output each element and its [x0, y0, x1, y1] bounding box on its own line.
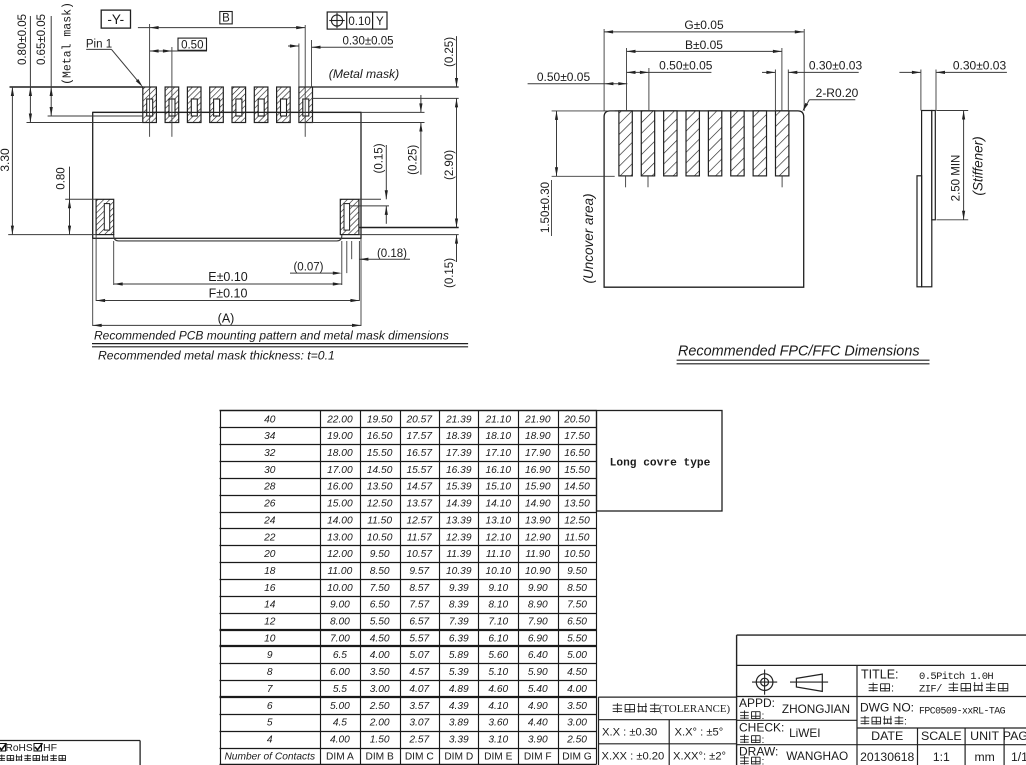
svg-text:9.90: 9.90	[528, 583, 548, 594]
svg-text:11.50: 11.50	[367, 515, 392, 526]
svg-text:6.57: 6.57	[409, 617, 429, 628]
svg-text:18.00: 18.00	[327, 448, 353, 459]
svg-text:16.90: 16.90	[525, 465, 551, 476]
svg-text:5.40: 5.40	[528, 684, 548, 695]
svg-text:8.00: 8.00	[330, 617, 350, 628]
svg-text:18.10: 18.10	[486, 431, 512, 442]
svg-text:14: 14	[264, 600, 276, 611]
svg-text:5.00: 5.00	[567, 650, 587, 661]
svg-text:DRAW:: DRAW:	[739, 745, 778, 759]
dimension (0.25) top right	[456, 36, 458, 87]
FPC finger 2 (hatched)	[641, 111, 654, 176]
svg-text:DIM C: DIM C	[405, 751, 434, 762]
svg-text:16.57: 16.57	[407, 448, 433, 459]
svg-text:X.X° : ±5°: X.X° : ±5°	[675, 727, 724, 739]
svg-text:G±0.05: G±0.05	[684, 18, 724, 32]
svg-text:16.50: 16.50	[564, 448, 590, 459]
svg-text:12.10: 12.10	[486, 532, 512, 543]
pad 2 metal mask (hatched)	[165, 87, 179, 123]
B extension line pad1 center	[149, 24, 151, 137]
pad 7 solder pad (white)	[281, 99, 287, 116]
svg-text:5.60: 5.60	[488, 650, 508, 661]
svg-text:mm: mm	[974, 750, 994, 764]
left anchor pad (hatched)	[96, 199, 114, 234]
svg-text:6.10: 6.10	[488, 633, 508, 644]
body top edge right extension	[361, 111, 425, 113]
svg-text:7.57: 7.57	[409, 600, 429, 611]
FPC finger 1 (hatched)	[619, 111, 632, 176]
svg-text:DIM G: DIM G	[562, 751, 592, 762]
FPC side view strip	[922, 111, 932, 287]
svg-text:HF: HF	[43, 742, 57, 754]
svg-text:PAGE: PAGE	[1003, 729, 1026, 743]
anchor pad top line left extension	[65, 198, 96, 200]
svg-text:8.90: 8.90	[528, 600, 548, 611]
svg-text:20.50: 20.50	[563, 414, 590, 425]
svg-text:15.00: 15.00	[327, 499, 353, 510]
svg-text:8.50: 8.50	[567, 583, 587, 594]
svg-text::: :	[762, 756, 765, 765]
svg-text:(0.07): (0.07)	[293, 262, 323, 274]
FPC finger 3 (hatched)	[664, 111, 677, 176]
label (Stiffener) rotated	[971, 136, 986, 195]
svg-text:10.00: 10.00	[327, 583, 353, 594]
svg-text:DIM A: DIM A	[326, 751, 354, 762]
svg-text:4.00: 4.00	[370, 650, 390, 661]
svg-text:17.57: 17.57	[407, 431, 433, 442]
E extension lines	[92, 238, 94, 326]
svg-text:13.00: 13.00	[327, 532, 353, 543]
pad 2 solder pad (white)	[169, 99, 175, 116]
datum -Y- box	[101, 10, 130, 28]
svg-text:14.57: 14.57	[407, 482, 433, 493]
svg-text:7.10: 7.10	[488, 617, 508, 628]
dimension 0.50 line	[150, 50, 207, 52]
G extension lines	[603, 29, 605, 111]
svg-text:9.50: 9.50	[567, 566, 587, 577]
svg-text:3.50: 3.50	[370, 667, 390, 678]
svg-text:17.90: 17.90	[525, 448, 551, 459]
svg-text:3.00: 3.00	[370, 684, 390, 695]
svg-text:3.00: 3.00	[567, 718, 587, 729]
svg-text:2.50 MIN: 2.50 MIN	[951, 155, 963, 202]
svg-text:2-R0.20: 2-R0.20	[816, 86, 859, 100]
finger centerline ticks below	[625, 176, 627, 187]
svg-text:14.39: 14.39	[446, 499, 472, 510]
svg-text:4.39: 4.39	[449, 701, 469, 712]
svg-text:9.00: 9.00	[330, 600, 350, 611]
metal mask bottom right extension	[312, 122, 425, 124]
svg-text:6: 6	[267, 701, 273, 712]
dimension (2.90) label	[444, 150, 456, 180]
svg-text:(0.25): (0.25)	[444, 37, 456, 67]
dimension G±0.05	[604, 31, 804, 33]
svg-text:2.00: 2.00	[369, 718, 390, 729]
dimension 3.30 label	[0, 148, 12, 172]
pad 4 metal mask (hatched)	[210, 87, 224, 123]
svg-text:9: 9	[267, 650, 273, 661]
pad 1 metal mask (hatched)	[143, 87, 157, 123]
svg-text:14.10: 14.10	[486, 499, 512, 510]
svg-text::: :	[891, 683, 894, 695]
svg-text:15.57: 15.57	[407, 465, 433, 476]
svg-text:FPC0509-xxRL-TAG: FPC0509-xxRL-TAG	[919, 706, 1006, 717]
svg-text:16.39: 16.39	[446, 465, 472, 476]
dimension 0.65±0.05 label (rotated)	[36, 14, 48, 65]
svg-text:(0.15): (0.15)	[444, 258, 456, 288]
svg-text:4: 4	[267, 734, 273, 745]
svg-text:12.50: 12.50	[564, 515, 590, 526]
svg-text:6.50: 6.50	[567, 617, 587, 628]
metal mask bottom line left (0.80 level)	[27, 122, 143, 124]
svg-text:7.39: 7.39	[449, 617, 469, 628]
svg-text:11.00: 11.00	[328, 566, 353, 577]
svg-text:30: 30	[264, 465, 276, 476]
svg-text:5.00: 5.00	[330, 701, 350, 712]
FPC finger 8 (hatched)	[775, 111, 788, 176]
svg-text:4.10: 4.10	[488, 701, 508, 712]
svg-text:0.80±0.05: 0.80±0.05	[17, 14, 29, 65]
dimension 0.65±0.05 line	[50, 16, 52, 116]
svg-text:3.90: 3.90	[528, 734, 548, 745]
anchor pad bottom right extension	[359, 234, 459, 236]
svg-text:3.30: 3.30	[0, 148, 12, 172]
svg-text:10.39: 10.39	[446, 566, 472, 577]
svg-text:TITLE:: TITLE:	[861, 668, 899, 682]
svg-text:4.50: 4.50	[370, 633, 390, 644]
svg-text:4.00: 4.00	[330, 734, 350, 745]
svg-text:X.X : ±0.30: X.X : ±0.30	[602, 727, 657, 739]
solder pad top edge right extension	[312, 97, 459, 99]
svg-text:5.89: 5.89	[449, 650, 469, 661]
svg-text:LiWEI: LiWEI	[789, 726, 820, 740]
dimension (2.90) line	[456, 98, 458, 227]
svg-text:17.39: 17.39	[446, 448, 472, 459]
svg-text:18.39: 18.39	[446, 431, 472, 442]
svg-text:9.57: 9.57	[409, 566, 429, 577]
dimension 0.50 label box	[178, 38, 207, 50]
svg-text:3.07: 3.07	[409, 718, 429, 729]
dimension (0.15) bottom right	[456, 235, 458, 262]
svg-text:7.00: 7.00	[330, 633, 350, 644]
svg-text:X.XX°: ±2°: X.XX°: ±2°	[673, 751, 726, 763]
B extension lines (finger centers)	[626, 48, 628, 111]
svg-text:6.90: 6.90	[528, 633, 548, 644]
svg-text:1:1: 1:1	[933, 750, 950, 764]
svg-text:WANGHAO: WANGHAO	[786, 749, 848, 763]
svg-text:16.00: 16.00	[327, 482, 353, 493]
svg-text:7.50: 7.50	[370, 583, 390, 594]
svg-text:4.57: 4.57	[409, 667, 429, 678]
svg-text:17.00: 17.00	[327, 465, 353, 476]
svg-text:18: 18	[264, 566, 276, 577]
tolerance block grid	[599, 696, 737, 698]
metal mask top edge left segment	[10, 86, 143, 88]
svg-text:13.50: 13.50	[564, 499, 590, 510]
RoHS box	[0, 740, 140, 742]
FPC body outline	[604, 111, 804, 287]
body top edge through pads	[93, 111, 361, 113]
dimension 0.30±0.05 leader	[312, 46, 394, 48]
svg-text:2.50: 2.50	[566, 734, 587, 745]
svg-text:(Metal mask): (Metal mask)	[329, 67, 399, 81]
svg-text:0.5Pitch 1.0H: 0.5Pitch 1.0H	[919, 671, 993, 683]
svg-text:X.XX : ±0.20: X.XX : ±0.20	[602, 751, 665, 763]
svg-text:6.39: 6.39	[449, 633, 469, 644]
pad 5 metal mask (hatched)	[232, 87, 246, 123]
stiffener strip	[932, 111, 936, 220]
svg-text:APPD:: APPD:	[739, 696, 775, 710]
pad 3 solder pad (white)	[191, 99, 197, 116]
svg-text:12.57: 12.57	[407, 515, 433, 526]
svg-text:15.90: 15.90	[525, 482, 551, 493]
anchor pad bottom left extension (3.30 datum)	[8, 234, 96, 236]
svg-text:15.10: 15.10	[486, 482, 512, 493]
dimension 0.80 left anchor label	[56, 167, 68, 189]
svg-text:13.10: 13.10	[486, 515, 512, 526]
svg-text:5: 5	[267, 718, 273, 729]
FPC finger 4 (hatched)	[686, 111, 699, 176]
svg-text:8.50: 8.50	[370, 566, 390, 577]
svg-text:13.57: 13.57	[407, 499, 433, 510]
tolerance title text	[613, 703, 660, 712]
svg-text:3.89: 3.89	[449, 718, 469, 729]
svg-text:DATE: DATE	[871, 729, 903, 743]
pad8 right extension line	[311, 40, 313, 87]
pad 6 solder pad (white)	[258, 99, 264, 116]
svg-text:6.40: 6.40	[528, 650, 548, 661]
svg-text:Long covre type: Long covre type	[610, 458, 711, 470]
svg-text:SCALE: SCALE	[921, 729, 962, 743]
svg-text:F±0.10: F±0.10	[209, 287, 248, 301]
svg-text:5.50: 5.50	[370, 617, 390, 628]
svg-text:B: B	[222, 13, 230, 25]
svg-text:5.57: 5.57	[409, 633, 429, 644]
svg-text:UNIT: UNIT	[970, 729, 999, 743]
svg-text:(Stiffener): (Stiffener)	[971, 136, 986, 195]
svg-text:11.57: 11.57	[407, 532, 432, 543]
svg-text:5.50: 5.50	[567, 633, 587, 644]
svg-text:0.50: 0.50	[181, 39, 203, 51]
svg-text:(A): (A)	[218, 311, 235, 325]
svg-text:34: 34	[264, 431, 276, 442]
svg-text:13.39: 13.39	[446, 515, 472, 526]
svg-text:14.50: 14.50	[367, 465, 393, 476]
svg-text:19.00: 19.00	[327, 431, 353, 442]
svg-text:4.5: 4.5	[333, 718, 347, 729]
dimension (A)	[93, 324, 361, 326]
svg-text:18.90: 18.90	[525, 431, 551, 442]
svg-text:21.10: 21.10	[485, 414, 512, 425]
svg-text:9.10: 9.10	[488, 583, 508, 594]
svg-text:4.40: 4.40	[528, 718, 548, 729]
svg-text:-Y-: -Y-	[107, 12, 124, 27]
svg-text:3.60: 3.60	[488, 718, 508, 729]
svg-text:B±0.05: B±0.05	[685, 38, 723, 52]
dimension 1.50±0.30	[552, 110, 615, 112]
svg-text:16.10: 16.10	[486, 465, 512, 476]
svg-text:DIM D: DIM D	[444, 751, 473, 762]
svg-text:12.00: 12.00	[327, 549, 353, 560]
metal mask top edge right extension	[312, 86, 459, 88]
svg-text:20130618: 20130618	[860, 750, 914, 764]
svg-text:15.50: 15.50	[367, 448, 393, 459]
0.50 extension line pad2 center	[171, 47, 173, 137]
svg-text:17.10: 17.10	[486, 448, 512, 459]
svg-text:5.10: 5.10	[488, 667, 508, 678]
svg-text:16: 16	[264, 583, 276, 594]
svg-text:5.90: 5.90	[528, 667, 548, 678]
svg-text:9.50: 9.50	[370, 549, 390, 560]
svg-text:4.89: 4.89	[449, 684, 469, 695]
svg-text:(Metal mask): (Metal mask)	[62, 2, 75, 85]
svg-text:Recommended metal mask thickne: Recommended metal mask thickness: t=0.1	[98, 348, 335, 362]
dimension F±0.10	[96, 300, 359, 302]
RoHS checkbox	[0, 744, 6, 752]
svg-text:10.50: 10.50	[367, 532, 393, 543]
svg-text:26: 26	[263, 499, 276, 510]
dimension B label box	[220, 12, 232, 24]
inner bottom edge	[114, 234, 342, 241]
svg-text:(0.15): (0.15)	[374, 143, 386, 173]
svg-text:9.39: 9.39	[449, 583, 469, 594]
svg-text:17.50: 17.50	[564, 431, 590, 442]
svg-text:12.90: 12.90	[525, 532, 551, 543]
dimension 2.50 MIN	[937, 110, 969, 112]
dimension (0.25) mid	[420, 95, 422, 112]
svg-text:15.39: 15.39	[446, 482, 472, 493]
svg-text:12.50: 12.50	[367, 499, 393, 510]
svg-text:DIM F: DIM F	[524, 751, 552, 762]
dimension 0.80±0.05 line	[29, 16, 31, 123]
label (Metal mask) rotated left	[62, 2, 75, 85]
svg-text:10.57: 10.57	[407, 549, 433, 560]
svg-text:6.5: 6.5	[333, 650, 347, 661]
svg-text:6.50: 6.50	[370, 600, 390, 611]
svg-text:0.30±0.03: 0.30±0.03	[953, 59, 1007, 73]
pad 1 solder pad (white)	[147, 99, 153, 116]
svg-text:14.90: 14.90	[525, 499, 551, 510]
dimension E±0.10	[114, 283, 342, 285]
svg-text:11.90: 11.90	[525, 549, 550, 560]
svg-text:(0.18): (0.18)	[377, 248, 407, 260]
svg-text:4.60: 4.60	[488, 684, 508, 695]
svg-text:0.50±0.05: 0.50±0.05	[537, 70, 591, 84]
pad8 left extension line	[298, 44, 300, 88]
svg-text:3.10: 3.10	[488, 734, 508, 745]
svg-text:Recommended PCB mounting patte: Recommended PCB mounting pattern and met…	[94, 329, 449, 343]
pad 7 metal mask (hatched)	[277, 87, 291, 123]
svg-text:DIM B: DIM B	[365, 751, 394, 762]
svg-text:10: 10	[264, 633, 276, 644]
anchor pad top right extension	[359, 198, 381, 200]
dimension B line	[138, 27, 305, 29]
svg-text:Pin 1: Pin 1	[86, 39, 112, 51]
svg-text:E±0.10: E±0.10	[208, 270, 248, 284]
svg-text::: :	[904, 716, 907, 728]
svg-text:16.50: 16.50	[367, 431, 393, 442]
projection cone symbol	[796, 674, 822, 691]
svg-text:0.10: 0.10	[348, 16, 370, 28]
svg-text:CHECK:: CHECK:	[739, 721, 784, 735]
svg-text:21.39: 21.39	[445, 414, 472, 425]
svg-text:4.50: 4.50	[567, 667, 587, 678]
svg-text:3.57: 3.57	[409, 701, 429, 712]
svg-text:Number of Contacts: Number of Contacts	[224, 751, 315, 762]
svg-text:15.50: 15.50	[564, 465, 590, 476]
svg-text:(Uncover area): (Uncover area)	[581, 193, 596, 283]
svg-text:7.90: 7.90	[528, 617, 548, 628]
svg-text:6.00: 6.00	[330, 667, 350, 678]
svg-text:Y: Y	[376, 16, 384, 28]
anchor slot top right extension	[350, 205, 389, 207]
svg-text:11.10: 11.10	[486, 549, 511, 560]
svg-text:13.50: 13.50	[367, 482, 393, 493]
dimension (0.15) mid	[385, 145, 387, 199]
exposed conductor strip	[917, 176, 922, 287]
svg-text:40: 40	[264, 414, 276, 425]
dimension 0.80 left anchor line	[69, 167, 71, 235]
dimension 3.30 line	[11, 87, 13, 235]
connector body outline	[93, 112, 361, 238]
svg-text:32: 32	[264, 448, 276, 459]
svg-text:12.39: 12.39	[446, 532, 472, 543]
svg-text:28: 28	[263, 482, 276, 493]
svg-text:3.50: 3.50	[567, 701, 587, 712]
svg-text:0.30±0.03: 0.30±0.03	[809, 59, 863, 73]
svg-text:0.65±0.05: 0.65±0.05	[36, 14, 48, 65]
dimension table grid	[220, 410, 597, 412]
FPC finger 6 (hatched)	[731, 111, 744, 176]
svg-text:5.39: 5.39	[449, 667, 469, 678]
HF checkbox	[34, 744, 42, 752]
first angle projection symbol	[756, 674, 773, 691]
svg-text:DWG NO:: DWG NO:	[860, 701, 914, 715]
svg-text:22: 22	[263, 532, 276, 543]
pad 8 solder pad (white)	[303, 99, 309, 116]
svg-text:4.07: 4.07	[409, 684, 429, 695]
mask bottom edge right long extension	[359, 227, 459, 229]
svg-text:24: 24	[263, 515, 276, 526]
svg-text:0.80: 0.80	[56, 167, 68, 189]
svg-text:12: 12	[264, 617, 276, 628]
svg-text:DIM E: DIM E	[484, 751, 513, 762]
pad 6 metal mask (hatched)	[254, 87, 268, 123]
svg-text:5.5: 5.5	[333, 684, 347, 695]
left anchor pad slot (white)	[104, 204, 109, 231]
svg-text:19.50: 19.50	[367, 414, 393, 425]
right anchor pad (hatched)	[340, 199, 359, 234]
svg-text:14.50: 14.50	[564, 482, 590, 493]
svg-text:ZIF/: ZIF/	[919, 684, 942, 696]
pad 8 metal mask (hatched)	[299, 87, 313, 123]
svg-text:22.00: 22.00	[326, 414, 353, 425]
FPC finger 7 (hatched)	[753, 111, 766, 176]
svg-text:2.50: 2.50	[369, 701, 390, 712]
svg-text:(2.90): (2.90)	[444, 150, 456, 180]
dimension 0.80±0.05 label (rotated)	[17, 14, 29, 65]
svg-text:8: 8	[267, 667, 273, 678]
svg-text:0.30±0.05: 0.30±0.05	[342, 35, 393, 47]
position tolerance frame	[327, 12, 387, 29]
svg-text:RoHS: RoHS	[6, 743, 33, 754]
svg-text:20.57: 20.57	[406, 414, 433, 425]
svg-text:8.10: 8.10	[488, 600, 508, 611]
svg-text:ZHONGJIAN: ZHONGJIAN	[782, 702, 850, 716]
svg-text:Recommended FPC/FFC Dimensions: Recommended FPC/FFC Dimensions	[678, 343, 920, 359]
svg-text:8.39: 8.39	[449, 600, 469, 611]
svg-text:11.50: 11.50	[565, 532, 590, 543]
